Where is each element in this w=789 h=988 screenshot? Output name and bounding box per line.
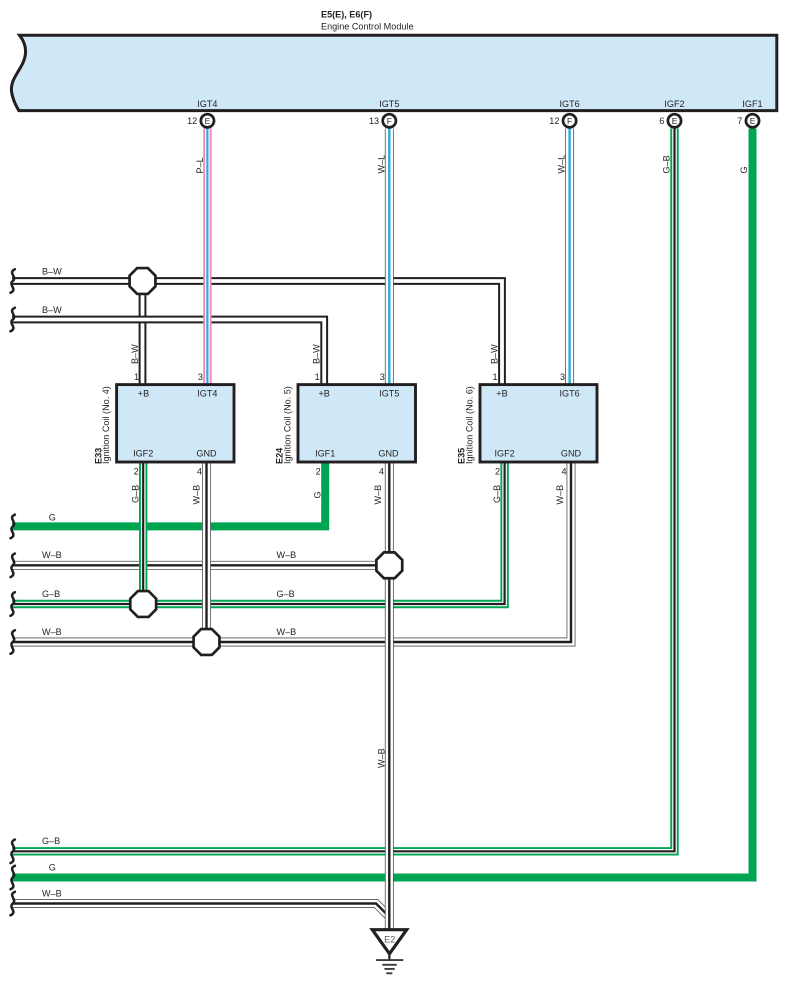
svg-text:4: 4	[561, 467, 566, 477]
svg-text:3: 3	[380, 372, 385, 382]
svg-text:IGF1: IGF1	[742, 99, 762, 109]
svg-text:IGT6: IGT6	[559, 99, 579, 109]
svg-text:Engine Control Module: Engine Control Module	[321, 22, 414, 32]
svg-text:B–W: B–W	[130, 344, 140, 364]
svg-text:B–W: B–W	[42, 305, 62, 315]
ignition coil E33 box	[93, 372, 234, 477]
svg-text:IGT4: IGT4	[197, 99, 217, 109]
svg-text:13: 13	[369, 116, 379, 126]
svg-text:G: G	[49, 512, 56, 522]
svg-text:IGF2: IGF2	[664, 99, 684, 109]
junction connector on G-B	[130, 591, 156, 617]
svg-text:7: 7	[737, 116, 742, 126]
svg-text:1: 1	[315, 372, 320, 382]
svg-text:W–B: W–B	[376, 748, 386, 768]
svg-text:F: F	[387, 116, 392, 126]
svg-text:G: G	[739, 166, 749, 173]
wire B-W upper horizontal to coil3 +B	[12, 281, 502, 385]
svg-text:W–L: W–L	[376, 155, 386, 174]
svg-text:W–B: W–B	[555, 485, 565, 505]
wire W-B bottom horizontal merging to ground wire	[12, 904, 389, 917]
ECM pin 13 connector F	[369, 114, 396, 127]
svg-text:G–B: G–B	[277, 589, 295, 599]
wire-break symbol (W-B 1)	[11, 554, 15, 578]
svg-text:G–B: G–B	[492, 485, 502, 503]
svg-text:B–W: B–W	[489, 344, 499, 364]
svg-text:E: E	[750, 116, 756, 126]
ignition coil E35 box	[457, 372, 597, 477]
junction connector on W-B 2	[194, 629, 220, 655]
wire-break symbol (B-W 1)	[11, 269, 15, 293]
svg-text:W–B: W–B	[42, 550, 62, 560]
wire G horizontal to coil2 IGF1	[12, 461, 325, 526]
svg-text:IGF1: IGF1	[315, 448, 335, 458]
svg-text:E: E	[672, 116, 678, 126]
svg-text:2: 2	[495, 467, 500, 477]
svg-text:W–B: W–B	[192, 485, 202, 505]
wire-break symbol (G-B bottom)	[11, 840, 15, 864]
svg-text:Ignition Coil (No. 6): Ignition Coil (No. 6)	[464, 386, 474, 464]
svg-text:12: 12	[549, 116, 559, 126]
wire-break symbol (G bottom)	[11, 866, 15, 890]
svg-text:4: 4	[197, 467, 202, 477]
svg-text:G: G	[49, 862, 56, 872]
svg-text:GND: GND	[561, 448, 582, 458]
svg-text:4: 4	[379, 467, 384, 477]
svg-text:W–B: W–B	[42, 888, 62, 898]
svg-text:F: F	[567, 116, 572, 126]
svg-text:B–W: B–W	[42, 267, 62, 277]
svg-text:2: 2	[134, 467, 139, 477]
junction connector on W-B 1	[376, 552, 402, 578]
wire W-B coil2 GND to ground	[385, 461, 394, 929]
svg-text:G–B: G–B	[42, 836, 60, 846]
svg-text:Ignition Coil (No. 4): Ignition Coil (No. 4)	[101, 386, 111, 464]
svg-text:GND: GND	[196, 448, 217, 458]
wire W-B horizontal 1	[12, 561, 389, 570]
svg-text:W–B: W–B	[373, 485, 383, 505]
svg-text:+B: +B	[319, 388, 330, 398]
svg-text:12: 12	[187, 116, 197, 126]
svg-text:W–L: W–L	[557, 155, 567, 174]
ECM pin 12 connector F	[549, 114, 576, 127]
svg-text:W–B: W–B	[277, 627, 297, 637]
wire G IGF1 down and left to break	[12, 129, 753, 878]
svg-text:G–B: G–B	[130, 485, 140, 503]
ECM E5/E6 Engine Control Module box	[11, 35, 776, 110]
wire-break symbol (G-B)	[11, 592, 15, 616]
svg-text:G–B: G–B	[662, 155, 672, 173]
svg-text:3: 3	[560, 372, 565, 382]
wire-break symbol (G)	[11, 515, 15, 539]
wire G-B IGF2 down and left to break	[12, 129, 675, 852]
svg-text:2: 2	[316, 467, 321, 477]
svg-text:1: 1	[492, 372, 497, 382]
svg-text:E2: E2	[384, 935, 395, 945]
wire W-B horizontal 2 to coil3 GND	[12, 461, 571, 642]
svg-text:3: 3	[198, 372, 203, 382]
junction connector on B-W	[130, 268, 156, 294]
svg-text:IGT5: IGT5	[379, 99, 399, 109]
ECM pin 6 connector E	[659, 114, 681, 127]
wire B-W drop to coil1 +B	[139, 281, 147, 385]
svg-text:P–L: P–L	[195, 157, 205, 173]
svg-text:E: E	[205, 116, 211, 126]
svg-text:W–B: W–B	[42, 627, 62, 637]
svg-text:W–B: W–B	[277, 550, 297, 560]
svg-text:GND: GND	[378, 448, 399, 458]
svg-text:IGT6: IGT6	[559, 388, 579, 398]
wire G-B coil1 IGF2 drop	[139, 461, 147, 604]
wire W-B coil1 GND drop	[202, 461, 211, 642]
svg-text:E5(E), E6(F): E5(E), E6(F)	[321, 10, 372, 20]
svg-text:IGT4: IGT4	[197, 388, 217, 398]
ECM pin 12 connector E	[187, 114, 214, 127]
svg-text:IGF2: IGF2	[133, 448, 153, 458]
svg-text:+B: +B	[496, 388, 507, 398]
svg-text:+B: +B	[138, 388, 149, 398]
wire-break symbol (B-W 2)	[11, 308, 15, 332]
svg-text:IGT5: IGT5	[379, 388, 399, 398]
wire W-L IGT5 to coil2	[385, 129, 394, 386]
ignition coil E24 box	[275, 372, 416, 477]
svg-text:IGF2: IGF2	[494, 448, 514, 458]
svg-text:6: 6	[659, 116, 664, 126]
wire W-L IGT6 to coil3	[565, 129, 574, 386]
ground symbol E2	[372, 930, 406, 974]
wire G-B horizontal to coil3 IGF2	[12, 461, 505, 604]
svg-text:G: G	[312, 491, 322, 498]
svg-text:G–B: G–B	[42, 589, 60, 599]
wire B-W lower horizontal to coil2 +B	[12, 320, 324, 386]
ECM pin 7 connector E	[737, 114, 759, 127]
wire P-L IGT4 to coil1	[203, 129, 211, 386]
svg-text:B–W: B–W	[312, 344, 322, 364]
svg-text:1: 1	[134, 372, 139, 382]
svg-text:Ignition Coil (No. 5): Ignition Coil (No. 5)	[282, 386, 292, 464]
wire-break symbol (W-B bottom)	[11, 892, 15, 916]
wire-break symbol (W-B 2)	[11, 630, 15, 654]
